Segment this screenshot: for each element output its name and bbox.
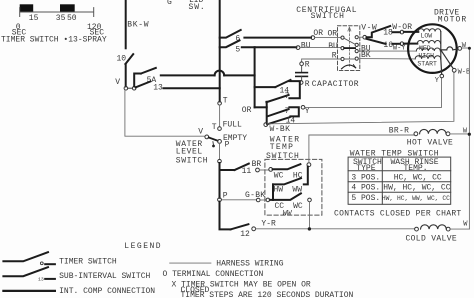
wire: switch 10 to node V <box>125 64 127 86</box>
switch 18 <box>367 26 391 37</box>
svg-text:START: START <box>417 61 437 68</box>
timer switch 5 <box>220 40 240 47</box>
centrifugal internal arms <box>344 38 355 44</box>
centrifugal governor arc <box>342 65 356 69</box>
wire Y (to motor) <box>305 78 442 108</box>
contact 7 (third) arm <box>267 109 288 116</box>
svg-text:BK-W: BK-W <box>127 21 149 30</box>
svg-text:HW, HC, WW, WC, CC: HW, HC, WW, WC, CC <box>382 195 450 202</box>
svg-text:Y: Y <box>435 77 440 85</box>
svg-text:BK: BK <box>361 51 371 60</box>
wire motor W to right rail <box>462 47 469 49</box>
main vertical line A <box>219 0 221 101</box>
wire BU to HIGH <box>359 50 417 52</box>
centrifugal switch dashed box <box>338 26 360 71</box>
node V terminals <box>124 86 128 90</box>
svg-text:10: 10 <box>117 55 127 64</box>
svg-text:FULL: FULL <box>223 120 242 129</box>
svg-text:13: 13 <box>153 83 163 92</box>
motor Y drop <box>440 59 443 74</box>
WTS row1 fixed terminal <box>307 163 311 167</box>
terminal Y-R <box>252 227 256 231</box>
svg-text:W: W <box>462 42 467 50</box>
motor diagonal to W-B <box>441 50 453 69</box>
svg-text:4 POS.: 4 POS. <box>351 184 380 193</box>
contact stack: lead to contact 14 <box>255 86 276 88</box>
WTS row2 contact HW/WW <box>273 178 301 184</box>
svg-text:TIMER SWITCH •13-SPRAY: TIMER SWITCH •13-SPRAY <box>1 36 107 45</box>
timer switch 11 arm <box>235 164 249 170</box>
MED winding <box>417 41 440 44</box>
left bus of lower contacts <box>266 102 268 123</box>
water level switch V terminal <box>205 135 209 139</box>
svg-text:TEMP: TEMP <box>270 143 294 152</box>
svg-text:SWITCH: SWITCH <box>266 152 300 161</box>
svg-text:11: 11 <box>242 167 252 176</box>
water temp switch dashed box <box>265 159 322 215</box>
svg-text:BU: BU <box>328 42 338 51</box>
wire 5 (to BU) <box>242 46 296 48</box>
timer chart tick labels <box>12 14 104 38</box>
wire P down <box>219 143 221 159</box>
terminal T upper <box>218 102 222 106</box>
cold rail wire <box>256 228 415 230</box>
wire P to G-BK <box>221 199 256 201</box>
svg-text:HARNESS WIRING: HARNESS WIRING <box>216 259 283 268</box>
svg-text:HOT VALVE: HOT VALVE <box>407 139 453 148</box>
wire BK to START <box>359 58 416 60</box>
branch to switch 11 <box>220 169 235 171</box>
thin link <box>259 169 269 171</box>
svg-text:50: 50 <box>67 14 77 23</box>
timer switch 5A arm <box>141 68 156 74</box>
svg-text:W-B: W-B <box>458 69 471 77</box>
svg-text:W-BK: W-BK <box>270 125 291 134</box>
terminal Y <box>301 106 305 110</box>
switch 5A riser <box>134 74 141 87</box>
WTS left bus <box>272 184 274 200</box>
svg-text:5: 5 <box>235 46 240 55</box>
svg-text:COLD VALVE: COLD VALVE <box>406 234 458 243</box>
capacitor C <box>301 66 303 72</box>
svg-text:T: T <box>223 96 228 105</box>
cold valve coil <box>415 227 419 231</box>
svg-text:G: G <box>167 0 172 7</box>
svg-text:SWITCH: SWITCH <box>176 156 208 165</box>
WTS right bus row1-row2 <box>304 167 308 185</box>
WTS row3 contact CC/WC <box>270 193 301 200</box>
wire W-B (to motor) <box>268 72 454 124</box>
motor protector hump to W <box>441 47 458 50</box>
terminal T lower <box>218 127 222 131</box>
svg-text:WC: WC <box>274 171 284 180</box>
svg-text:OR: OR <box>242 106 252 115</box>
svg-text:O TERMINAL CONNECTION: O TERMINAL CONNECTION <box>163 270 264 279</box>
wire 13 to main line <box>164 87 220 89</box>
wire: left line to switch 10 <box>125 0 127 48</box>
table text <box>351 158 450 203</box>
V-W terminal <box>358 36 363 38</box>
wire to LOW <box>404 31 419 33</box>
svg-text:13: 13 <box>38 276 44 282</box>
water level switch arm <box>209 138 218 141</box>
terminal BU <box>296 46 300 50</box>
WTS row3 fixed terminal WC <box>308 198 312 202</box>
centrifugal left terminals <box>341 36 344 39</box>
contact 7 fixed stub + Y bus <box>289 107 298 116</box>
legend harness wiring <box>170 262 211 264</box>
svg-text:3 POS.: 3 POS. <box>351 173 380 182</box>
wire 6 (to OR) <box>244 37 311 39</box>
svg-text:LEVEL: LEVEL <box>176 147 203 156</box>
svg-text:SUB-INTERVAL SWITCH: SUB-INTERVAL SWITCH <box>59 272 150 281</box>
terminal BR <box>256 168 260 172</box>
centrifugal right terminals <box>355 36 358 39</box>
svg-text:35: 35 <box>56 14 66 23</box>
contact 7 (second) arm <box>266 95 288 102</box>
LOW winding <box>418 29 440 32</box>
svg-text:MOTOR: MOTOR <box>438 15 468 24</box>
svg-text:BR: BR <box>252 160 262 169</box>
svg-text:HC, WC, CC: HC, WC, CC <box>394 173 442 182</box>
svg-text:SWITCH: SWITCH <box>311 12 345 21</box>
motor right bus <box>440 32 442 60</box>
heavy wire down to P <box>219 163 221 198</box>
svg-text:CAPACITOR: CAPACITOR <box>312 80 359 89</box>
HIGH winding <box>416 48 440 51</box>
motor W terminal <box>458 47 462 51</box>
wire from WTS WC down to cold rail <box>309 202 311 229</box>
START winding <box>415 56 441 59</box>
svg-text:WW: WW <box>283 210 294 218</box>
contact 14 (top) arm <box>275 80 290 87</box>
right rail <box>468 48 470 229</box>
legend int comp connection symbol <box>3 290 55 292</box>
terminal W-BK <box>264 123 268 127</box>
timer switch 10 arm <box>125 54 133 64</box>
junction dot <box>308 227 311 230</box>
terminal into WTS row1 <box>269 168 273 172</box>
table frame <box>348 157 451 204</box>
water level switch P terminal <box>218 140 222 144</box>
drive motor circle <box>408 24 457 73</box>
svg-text:TYPE: TYPE <box>356 164 375 173</box>
svg-text:P: P <box>223 192 228 201</box>
svg-text:SW.: SW. <box>189 3 206 12</box>
svg-text:7: 7 <box>285 107 290 116</box>
svg-text:7: 7 <box>285 92 290 101</box>
svg-text:OR: OR <box>313 29 323 38</box>
svg-text:INT. COMP CONNECTION: INT. COMP CONNECTION <box>59 287 155 296</box>
svg-text:G-BK: G-BK <box>245 191 265 200</box>
svg-text:T: T <box>212 123 217 132</box>
svg-text:W: W <box>463 220 468 228</box>
svg-text:Y-R: Y-R <box>261 220 276 229</box>
svg-text:16: 16 <box>383 41 393 50</box>
timer switch 13 arm <box>136 82 151 88</box>
svg-text:HW, HC, WC, CC: HW, HC, WC, CC <box>383 184 450 193</box>
svg-text:V: V <box>115 78 120 87</box>
svg-text:BR-R: BR-R <box>389 127 409 136</box>
wire T to T <box>219 105 221 127</box>
svg-text:WC: WC <box>293 202 303 211</box>
timer chart baseline <box>20 8 94 17</box>
svg-text:P: P <box>225 141 230 150</box>
wire BU thin into box <box>300 47 341 49</box>
hot valve coil <box>414 132 418 136</box>
svg-text:TIMER SWITCH: TIMER SWITCH <box>59 257 117 266</box>
wire BR-R riser from WTS row1 terminal <box>309 135 414 163</box>
legend timer switch symbol <box>3 252 48 261</box>
wire V (from node V) <box>125 90 205 136</box>
legend sub-interval switch symbol <box>3 267 48 276</box>
svg-text:V: V <box>198 128 203 137</box>
timer chart bar 2 <box>60 4 75 12</box>
line B: drop from wire 5 to contact stack <box>254 47 256 107</box>
svg-text:TEMP.: TEMP. <box>404 164 428 173</box>
contact 14 fixed stub and bus <box>289 81 299 98</box>
wire 5A with hop over main line <box>161 74 255 76</box>
svg-text:HW: HW <box>274 186 284 195</box>
wire to MED <box>404 43 418 45</box>
svg-text:TIMER STEPS ARE 120 SECONDS DU: TIMER STEPS ARE 120 SECONDS DURATION <box>181 291 354 298</box>
switch 16 <box>366 39 385 44</box>
timer switch 6 <box>220 30 241 38</box>
centrifugal internal center line <box>348 30 350 67</box>
svg-text:15: 15 <box>29 14 39 23</box>
timer chart bar 1 <box>20 4 34 12</box>
heavy wire down to switch 12 <box>220 202 231 230</box>
svg-text:5 POS.: 5 POS. <box>351 194 380 203</box>
motor W-B terminal <box>452 68 456 72</box>
svg-text:R: R <box>305 80 310 89</box>
terminal (junction) <box>218 159 222 163</box>
svg-text:CONTACTS CLOSED PER CHART: CONTACTS CLOSED PER CHART <box>334 209 462 218</box>
svg-text:W-OR: W-OR <box>392 23 412 32</box>
wire OR thin into box <box>315 37 341 39</box>
timer switch 12 arm <box>231 224 249 229</box>
svg-text:Y: Y <box>305 107 310 116</box>
svg-text:LOW: LOW <box>421 33 433 40</box>
contact 14 (bottom) arm <box>267 117 289 124</box>
terminal R upper <box>300 62 304 66</box>
svg-text:R: R <box>305 61 310 70</box>
terminal OR <box>311 36 315 40</box>
svg-text:BU: BU <box>301 41 311 50</box>
WTS row1 contact WC/HC <box>273 164 301 169</box>
svg-text:LEGEND: LEGEND <box>124 242 162 251</box>
motor Y terminal <box>440 74 444 78</box>
link line B to left bus <box>255 106 267 108</box>
terminal R lower <box>299 81 303 85</box>
svg-text:12: 12 <box>240 230 250 239</box>
